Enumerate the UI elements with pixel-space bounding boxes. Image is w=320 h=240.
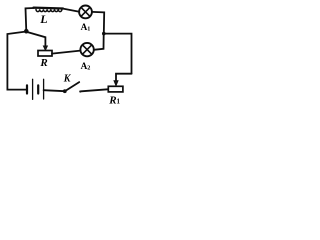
wire: right rail elbow to rheostat arrow drop bbox=[116, 74, 132, 81]
inductor L scallops bbox=[36, 9, 62, 11]
svg-text:K: K bbox=[63, 74, 72, 85]
battery cell2 long plate bbox=[43, 79, 45, 99]
inductor L coil top bar bbox=[34, 6, 64, 9]
wire: coil to lamp A1 bbox=[63, 9, 79, 12]
wire: lamp A2 right to node bbox=[94, 34, 104, 50]
wire: junction to resistor R drop bbox=[26, 32, 45, 47]
battery cell2 short plate bbox=[37, 85, 39, 93]
resistor R arrowhead bbox=[43, 46, 47, 50]
rheostat R1 box bbox=[108, 86, 123, 92]
switch K right contact bbox=[79, 90, 81, 92]
wire: node to right rail corner bbox=[104, 34, 132, 74]
svg-text:L: L bbox=[39, 12, 47, 26]
lamp A2 circle bbox=[80, 43, 93, 56]
node junction dot right bbox=[102, 32, 106, 36]
node junction dot left bbox=[24, 29, 29, 34]
wire: switch to rheostat box bbox=[81, 89, 107, 91]
svg-text:R: R bbox=[39, 57, 47, 69]
wire: junction up to top-left elbow into coil bbox=[26, 8, 35, 31]
lamp A1 circle bbox=[79, 5, 92, 18]
battery cell1 long plate bbox=[32, 79, 34, 99]
resistor R box bbox=[38, 51, 52, 57]
wire: battery to switch bbox=[44, 90, 65, 91]
lamp A1 cross bbox=[81, 8, 90, 17]
switch K lever bbox=[65, 82, 79, 91]
battery cell1 short plate bbox=[26, 85, 28, 93]
wire: resistor R to lamp A2 bbox=[52, 51, 80, 54]
lamp A2 cross bbox=[83, 45, 92, 54]
rheostat R1 arrowhead bbox=[114, 81, 118, 86]
wire: left rail from junction down and bottom-left corner bbox=[7, 32, 26, 90]
wire: lamp A1 to top-right corner and down to node bbox=[92, 12, 104, 34]
switch K pivot dot bbox=[63, 89, 67, 93]
